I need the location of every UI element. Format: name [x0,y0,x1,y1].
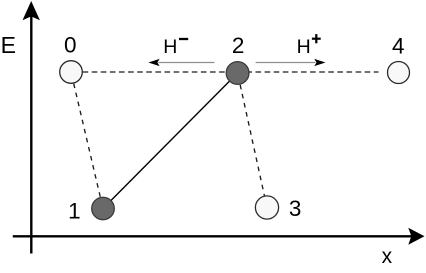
svg-text:0: 0 [64,32,77,57]
svg-text:4: 4 [392,34,405,59]
H+ arrow (pointing right) [256,62,316,64]
wire: solid 1-2 [103,73,238,209]
svg-text:E: E [1,32,16,58]
x-axis line [13,235,412,237]
y-axis (E) line [30,14,32,254]
H- arrow (pointing left) [159,62,215,64]
svg-text:H: H [297,36,311,58]
wire: dashed 2-3 [238,73,267,208]
svg-text:1: 1 [68,198,81,223]
svg-text:x: x [382,245,393,268]
node 0 [60,61,83,84]
node 2 [226,62,249,85]
node 3 [255,196,278,219]
svg-text:H: H [163,36,177,58]
node 4 [388,62,410,84]
node 1 [92,197,115,220]
svg-text:2: 2 [232,33,245,58]
svg-text:3: 3 [289,196,302,221]
x-axis arrowhead [408,228,424,245]
wire: dashed horizontal 0-2-4 [83,71,379,73]
wire: dashed 0-1 [71,72,103,209]
y-axis arrowhead [23,1,40,20]
